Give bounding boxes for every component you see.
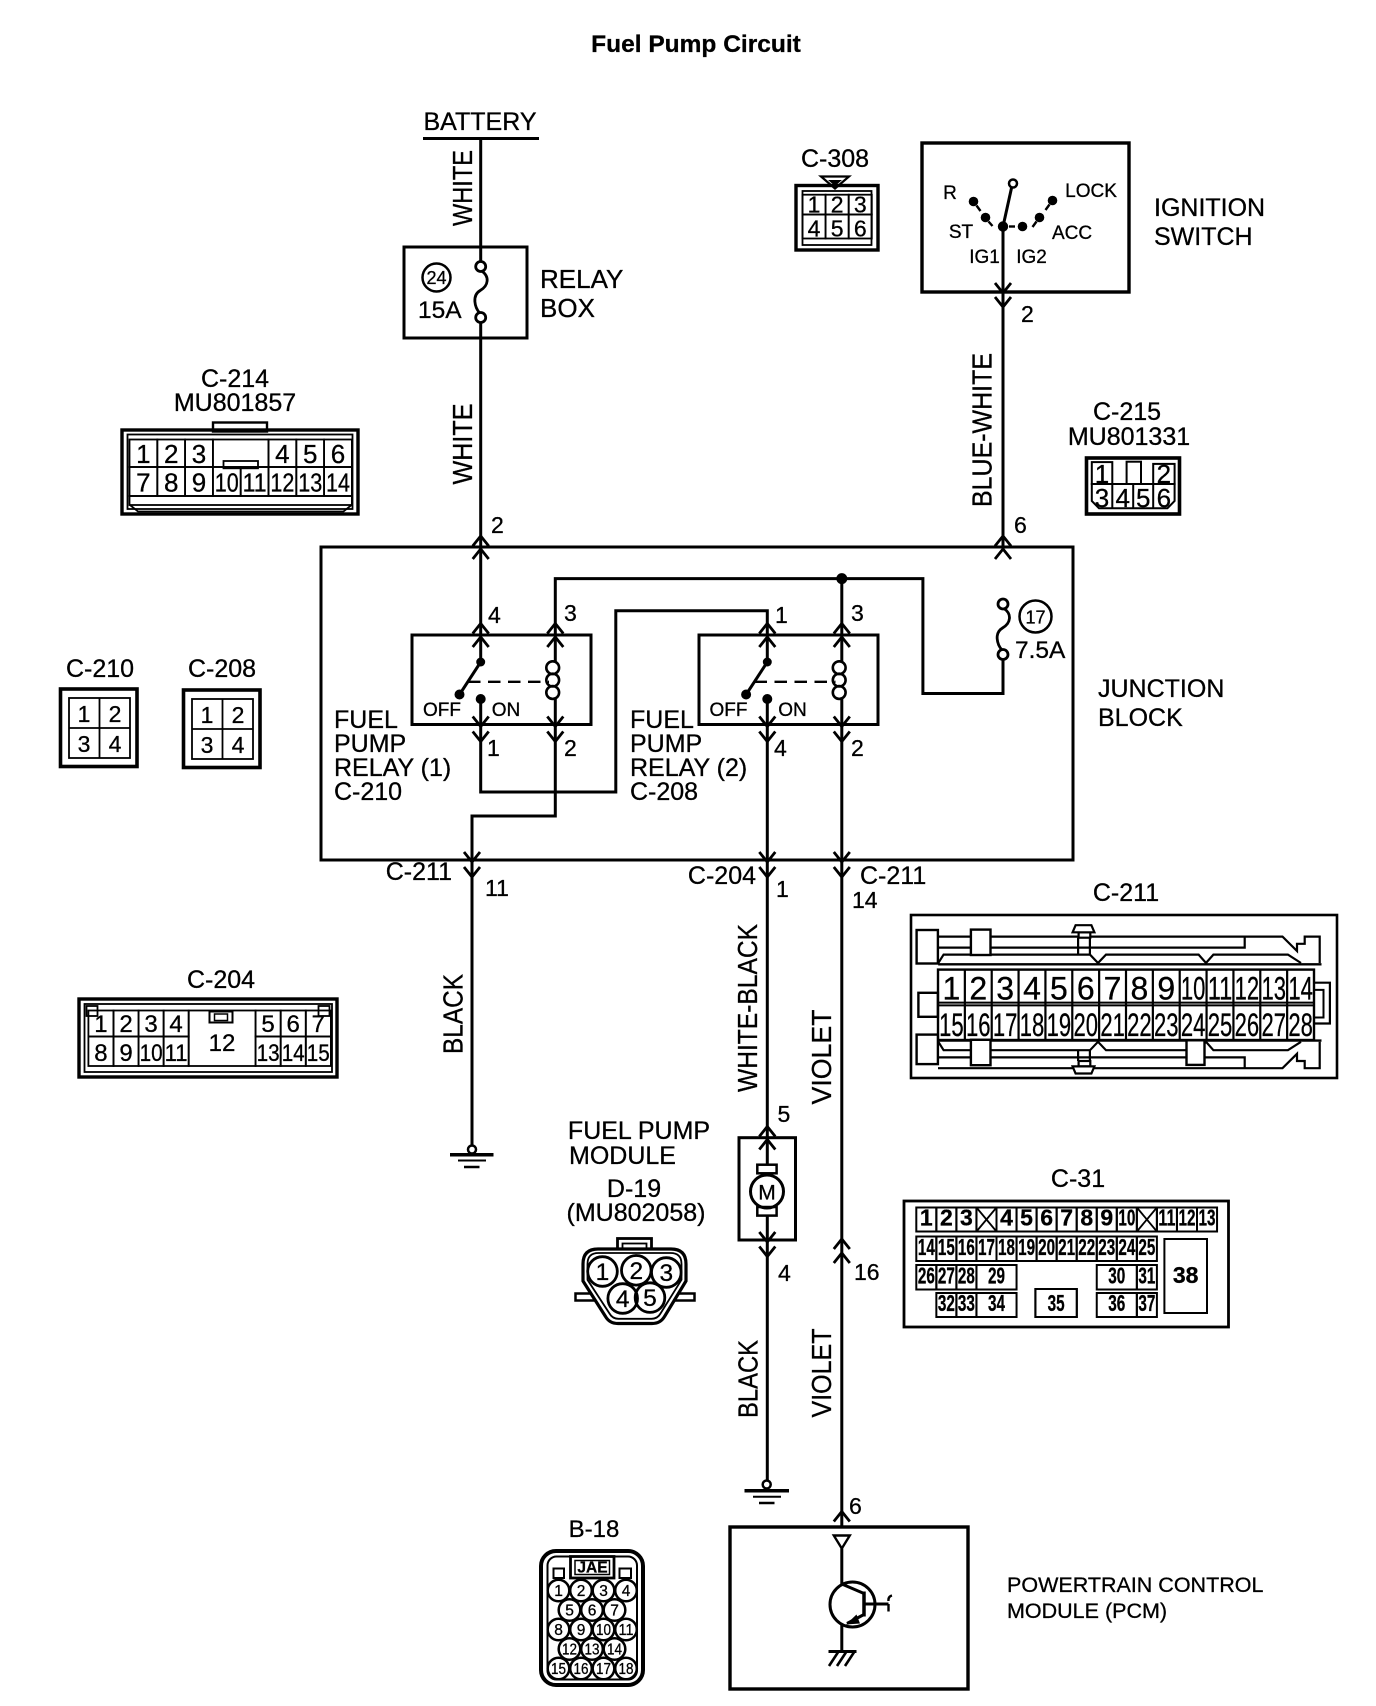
fuel pump relay 2 box C-208 (699, 635, 878, 725)
svg-text:16: 16 (854, 1259, 880, 1285)
svg-text:2: 2 (564, 735, 577, 761)
connector C-211 bottom latch (938, 1042, 1320, 1068)
svg-text:4: 4 (774, 735, 787, 761)
svg-text:34: 34 (988, 1290, 1005, 1316)
svg-text:M: M (758, 1182, 776, 1205)
svg-text:C-308: C-308 (801, 145, 869, 173)
svg-text:VIOLET: VIOLET (806, 1329, 837, 1418)
svg-text:17: 17 (1025, 608, 1045, 628)
svg-text:17: 17 (993, 1007, 1018, 1043)
svg-text:23: 23 (1154, 1007, 1179, 1043)
svg-text:C-215: C-215 (1093, 398, 1161, 426)
svg-text:C-210: C-210 (334, 778, 402, 806)
svg-text:3: 3 (599, 1583, 608, 1600)
connector B-18 body (541, 1551, 643, 1685)
junction block exit C-211 pin 14 (834, 852, 850, 862)
svg-text:C-31: C-31 (1051, 1165, 1105, 1193)
svg-text:6: 6 (1077, 971, 1095, 1007)
wire battery feed to fuel pump relay 1 pin 4 (479, 547, 482, 635)
svg-text:2: 2 (969, 971, 987, 1007)
svg-text:FUEL PUMP: FUEL PUMP (568, 1117, 710, 1145)
relay 2 coil (840, 637, 843, 662)
svg-text:7: 7 (610, 1603, 619, 1620)
svg-text:3: 3 (1095, 483, 1109, 513)
svg-text:13: 13 (1199, 1205, 1216, 1231)
svg-text:C-204: C-204 (688, 862, 756, 890)
svg-text:Fuel Pump Circuit: Fuel Pump Circuit (591, 31, 801, 58)
svg-text:5: 5 (261, 1011, 274, 1038)
svg-text:1: 1 (808, 192, 821, 218)
wire battery to relay box (WHITE) (479, 139, 482, 248)
svg-text:12: 12 (1178, 1205, 1195, 1231)
svg-text:24: 24 (1181, 1007, 1206, 1043)
connector C-211 side tabs (918, 993, 938, 1017)
svg-text:R: R (943, 183, 957, 204)
connector C-204 key tab (210, 1012, 233, 1023)
connector C-31 pin row 1 (916, 1208, 936, 1232)
svg-text:C-211: C-211 (1093, 879, 1159, 907)
svg-text:29: 29 (988, 1263, 1005, 1289)
bus wire from fuse 17 to relay coils (555, 579, 1003, 694)
svg-text:11: 11 (1158, 1205, 1175, 1231)
connector C-211 bottom mushroom pin (1078, 1050, 1090, 1061)
svg-text:MU801857: MU801857 (174, 389, 296, 417)
svg-text:27: 27 (938, 1263, 955, 1289)
svg-text:5: 5 (643, 1285, 657, 1312)
connector C-211 body (911, 915, 1337, 1078)
svg-text:23: 23 (1098, 1234, 1115, 1260)
svg-text:37: 37 (1138, 1290, 1155, 1316)
svg-text:2: 2 (164, 439, 178, 469)
svg-text:MU801331: MU801331 (1068, 423, 1190, 451)
junction block (321, 547, 1073, 860)
relay 1 dashed actuation link (468, 681, 549, 683)
wire to transistor (840, 1549, 843, 1585)
svg-text:4: 4 (622, 1583, 631, 1600)
svg-text:8: 8 (164, 468, 178, 498)
transistor Q (PCM driver) (830, 1582, 875, 1627)
wire C-211 pin 14 to PCM (VIOLET) (840, 860, 843, 1527)
svg-text:19: 19 (1047, 1007, 1072, 1043)
VIOLET direction chevrons (834, 1239, 850, 1249)
connector C-215 body (1087, 458, 1180, 514)
svg-text:38: 38 (1173, 1262, 1199, 1288)
fuel pump motor box (739, 1138, 796, 1240)
svg-text:30: 30 (1108, 1263, 1125, 1289)
svg-text:22: 22 (1127, 1007, 1152, 1043)
svg-text:9: 9 (192, 468, 206, 498)
svg-text:18: 18 (1020, 1007, 1045, 1043)
svg-text:1: 1 (136, 439, 150, 469)
svg-text:14: 14 (1288, 971, 1313, 1007)
ground symbol (left) (468, 1146, 476, 1154)
svg-text:BLACK: BLACK (437, 974, 468, 1054)
svg-text:15: 15 (939, 1007, 964, 1043)
svg-text:26: 26 (918, 1263, 935, 1289)
svg-text:4: 4 (232, 732, 245, 758)
svg-text:10: 10 (140, 1040, 163, 1067)
svg-text:MODULE (PCM): MODULE (PCM) (1007, 1599, 1167, 1623)
svg-text:1: 1 (596, 1259, 610, 1286)
svg-text:8: 8 (94, 1040, 107, 1067)
svg-text:15: 15 (551, 1661, 566, 1678)
junction block exit C-211 pin 11 (464, 852, 480, 862)
svg-text:POWERTRAIN CONTROL: POWERTRAIN CONTROL (1007, 1573, 1263, 1597)
svg-text:4: 4 (1023, 971, 1041, 1007)
wire C-211 pin 11 to ground (BLACK) (471, 860, 474, 1146)
fuel pump motor M (766, 1139, 769, 1165)
svg-text:4: 4 (1000, 1205, 1013, 1231)
wire transistor to chassis ground (840, 1625, 843, 1652)
svg-text:6: 6 (331, 439, 345, 469)
svg-text:2: 2 (232, 702, 245, 728)
svg-text:2: 2 (831, 192, 844, 218)
relay 2 pin 4 (switch out) to C-204 exit (766, 699, 769, 860)
wire relay 1 pin 2 to C-211 pin 11 exit (472, 725, 555, 861)
relay 2 switch (766, 637, 769, 662)
connector C-208 body (184, 690, 261, 768)
svg-text:OFF: OFF (423, 700, 461, 721)
svg-text:1: 1 (554, 1583, 563, 1600)
svg-text:6: 6 (1157, 483, 1171, 513)
connector B-18 pin circles (548, 1580, 570, 1602)
svg-text:JAE: JAE (577, 1560, 607, 1577)
relay 1 coil (554, 637, 557, 662)
wire fuel pump to ground (BLACK) (766, 1240, 769, 1481)
svg-text:LOCK: LOCK (1065, 181, 1117, 202)
svg-text:3: 3 (192, 439, 206, 469)
svg-text:18: 18 (619, 1661, 634, 1678)
svg-text:C-211: C-211 (386, 858, 452, 886)
svg-text:17: 17 (978, 1234, 995, 1260)
wire relay 1 pin 1 to relay 2 pin 1 (481, 611, 768, 792)
svg-text:1: 1 (920, 1205, 933, 1231)
svg-text:31: 31 (1138, 1263, 1155, 1289)
svg-text:2: 2 (1021, 301, 1034, 327)
svg-text:3: 3 (854, 192, 867, 218)
svg-text:1: 1 (487, 735, 500, 761)
svg-text:ON: ON (492, 700, 521, 721)
connector C-204 pin cells (88, 1011, 113, 1037)
svg-text:WHITE: WHITE (447, 150, 478, 226)
svg-text:14: 14 (918, 1234, 935, 1260)
powertrain control module box (730, 1527, 968, 1689)
svg-text:5: 5 (831, 216, 844, 242)
connector C-31 body (904, 1201, 1229, 1327)
svg-text:16: 16 (574, 1661, 589, 1678)
svg-text:12: 12 (1235, 971, 1260, 1007)
svg-text:18: 18 (998, 1234, 1015, 1260)
fuel pump module pin 4 exit (759, 1232, 775, 1242)
svg-text:6: 6 (849, 1493, 862, 1519)
svg-text:6: 6 (1040, 1205, 1053, 1231)
svg-text:MODULE: MODULE (569, 1142, 676, 1170)
svg-text:2: 2 (109, 701, 122, 727)
relay 2 pin 2 (coil out) to C-211 pin 14 exit (840, 725, 843, 861)
svg-text:C-204: C-204 (187, 966, 255, 994)
svg-text:2: 2 (851, 735, 864, 761)
svg-text:36: 36 (1108, 1290, 1125, 1316)
svg-text:7: 7 (312, 1011, 325, 1038)
svg-text:8: 8 (1131, 971, 1149, 1007)
svg-text:21: 21 (1100, 1007, 1125, 1043)
connector D-19 drawing (618, 1239, 652, 1252)
svg-text:6: 6 (287, 1011, 300, 1038)
svg-text:ON: ON (778, 700, 807, 721)
svg-text:OFF: OFF (710, 700, 748, 721)
chassis ground (PCM) (829, 1650, 857, 1653)
relay 2 dashed actuation link (755, 681, 836, 683)
svg-text:20: 20 (1073, 1007, 1098, 1043)
svg-text:3: 3 (78, 731, 91, 757)
fuse 17 circle label (1020, 601, 1052, 633)
svg-text:7: 7 (136, 468, 150, 498)
svg-text:4: 4 (109, 731, 122, 757)
svg-text:9: 9 (1100, 1205, 1113, 1231)
svg-text:26: 26 (1235, 1007, 1260, 1043)
svg-text:6: 6 (1014, 512, 1027, 538)
svg-text:2: 2 (577, 1583, 586, 1600)
svg-text:JUNCTION: JUNCTION (1098, 675, 1224, 703)
svg-text:10: 10 (596, 1622, 611, 1639)
connector C-211 pin grid (938, 970, 1314, 1040)
fuse 24 circle label (423, 264, 451, 292)
connector D-19 pin circles (588, 1257, 618, 1287)
svg-text:12: 12 (270, 468, 294, 498)
svg-text:5: 5 (1050, 971, 1068, 1007)
svg-text:35: 35 (1048, 1290, 1065, 1316)
svg-text:4: 4 (488, 602, 501, 628)
svg-text:3: 3 (564, 600, 577, 626)
svg-text:3: 3 (659, 1260, 673, 1287)
svg-text:15A: 15A (418, 297, 462, 324)
svg-text:C-208: C-208 (188, 655, 256, 683)
svg-text:8: 8 (554, 1622, 563, 1639)
svg-text:2: 2 (491, 512, 504, 538)
svg-text:14: 14 (326, 468, 350, 498)
svg-text:8: 8 (1080, 1205, 1093, 1231)
connector C-31 pin row 2 (916, 1237, 936, 1262)
svg-text:WHITE: WHITE (447, 404, 478, 485)
svg-text:3: 3 (996, 971, 1014, 1007)
svg-text:14: 14 (282, 1040, 305, 1067)
svg-text:20: 20 (1038, 1234, 1055, 1260)
PCM input triangle (834, 1536, 850, 1549)
relay 1 switch (479, 637, 482, 662)
svg-text:4: 4 (778, 1260, 791, 1286)
connector C-210 body (61, 689, 138, 767)
connector C-214 bottom strip (130, 496, 352, 505)
ground symbol (fuel pump) (763, 1481, 771, 1489)
connector C-31 pin row 3 (916, 1265, 936, 1290)
svg-text:7: 7 (1060, 1205, 1073, 1231)
junction block exit C-204 pin 1 (759, 852, 775, 862)
fuel pump relay 1 box C-210 (412, 635, 591, 725)
svg-text:RELAY: RELAY (540, 264, 623, 294)
svg-text:1: 1 (776, 876, 789, 902)
svg-text:WHITE-BLACK: WHITE-BLACK (732, 924, 763, 1092)
svg-text:10: 10 (1181, 971, 1206, 1007)
svg-text:21: 21 (1058, 1234, 1075, 1260)
svg-text:7.5A: 7.5A (1015, 637, 1066, 664)
svg-text:ACC: ACC (1052, 223, 1092, 244)
svg-text:17: 17 (596, 1661, 611, 1678)
svg-text:5: 5 (303, 439, 317, 469)
svg-text:ST: ST (949, 222, 974, 243)
svg-text:C-210: C-210 (66, 655, 134, 683)
wire bus to relay 2 pin 3 (840, 579, 843, 635)
svg-text:15: 15 (307, 1040, 330, 1067)
svg-text:11: 11 (165, 1040, 188, 1067)
svg-text:33: 33 (958, 1290, 975, 1316)
svg-text:4: 4 (616, 1286, 630, 1313)
svg-text:27: 27 (1261, 1007, 1286, 1043)
svg-text:5: 5 (1020, 1205, 1033, 1231)
fuse 17 element (998, 599, 1008, 609)
svg-text:14: 14 (852, 887, 878, 913)
svg-text:3: 3 (851, 600, 864, 626)
svg-text:3: 3 (144, 1011, 157, 1038)
relay box (404, 247, 527, 338)
svg-text:13: 13 (1261, 971, 1286, 1007)
relay 1 pin 1 (switch out) (479, 699, 482, 725)
connector C-211 top latch (938, 937, 1320, 963)
connector C-308 body (796, 186, 878, 251)
svg-text:IG2: IG2 (1016, 247, 1047, 268)
svg-text:5: 5 (565, 1603, 574, 1620)
svg-text:12: 12 (209, 1030, 236, 1057)
svg-text:6: 6 (588, 1603, 597, 1620)
svg-text:BLACK: BLACK (732, 1340, 763, 1418)
svg-text:5: 5 (778, 1101, 791, 1127)
svg-text:C-211: C-211 (860, 862, 926, 890)
svg-text:10: 10 (1118, 1205, 1135, 1231)
svg-text:2: 2 (119, 1011, 132, 1038)
svg-text:13: 13 (298, 468, 322, 498)
svg-text:24: 24 (426, 268, 446, 288)
svg-text:4: 4 (808, 216, 821, 242)
svg-text:28: 28 (1288, 1007, 1313, 1043)
svg-text:1: 1 (201, 702, 214, 728)
svg-text:32: 32 (938, 1290, 955, 1316)
svg-text:24: 24 (1118, 1234, 1135, 1260)
svg-text:2: 2 (940, 1205, 953, 1231)
svg-text:16: 16 (966, 1007, 991, 1043)
svg-text:9: 9 (577, 1622, 586, 1639)
ignition switch lever (1003, 188, 1012, 227)
svg-text:25: 25 (1138, 1234, 1155, 1260)
svg-text:7: 7 (1104, 971, 1122, 1007)
svg-text:3: 3 (960, 1205, 973, 1231)
svg-text:4: 4 (1115, 483, 1129, 513)
relay 1 pin 2 (coil out) (547, 717, 563, 727)
svg-text:IG1: IG1 (969, 247, 1000, 268)
svg-text:BATTERY: BATTERY (424, 108, 537, 136)
svg-text:14: 14 (607, 1642, 622, 1659)
svg-text:9: 9 (119, 1040, 132, 1067)
svg-text:C-208: C-208 (630, 778, 698, 806)
svg-text:11: 11 (1208, 971, 1233, 1007)
svg-text:BLUE-WHITE: BLUE-WHITE (966, 353, 997, 507)
svg-text:2: 2 (629, 1258, 643, 1285)
svg-text:11: 11 (243, 468, 267, 498)
svg-text:9: 9 (1157, 971, 1175, 1007)
connector C-211 top mushroom pin (1078, 938, 1090, 955)
svg-text:VIOLET: VIOLET (806, 1010, 837, 1105)
connector C-31 pin 38 (1164, 1239, 1207, 1313)
svg-text:11: 11 (619, 1622, 634, 1639)
svg-text:1: 1 (78, 701, 91, 727)
svg-text:4: 4 (275, 439, 289, 469)
junction node on bus (relay 2 coil tap) (836, 573, 847, 584)
svg-text:BOX: BOX (540, 293, 595, 323)
ignition switch box (922, 143, 1129, 292)
svg-text:IGNITION: IGNITION (1154, 194, 1265, 222)
svg-text:6: 6 (854, 216, 867, 242)
svg-text:1: 1 (775, 602, 788, 628)
svg-text:B-18: B-18 (569, 1516, 620, 1543)
connector B-18 JAE tag (571, 1557, 615, 1579)
svg-text:25: 25 (1208, 1007, 1233, 1043)
fuse 24 element (479, 247, 482, 262)
svg-text:28: 28 (958, 1263, 975, 1289)
svg-text:12: 12 (562, 1642, 577, 1659)
connector C-308 arrow (821, 177, 849, 189)
svg-text:3: 3 (201, 732, 214, 758)
connector C-31 pin row 4 (936, 1293, 956, 1317)
svg-text:22: 22 (1078, 1234, 1095, 1260)
connector C-214 body (213, 423, 267, 432)
wire C-204 pin 1 to fuel pump module (WHITE-BLACK) (766, 860, 769, 1138)
svg-text:4: 4 (169, 1011, 182, 1038)
svg-text:15: 15 (938, 1234, 955, 1260)
svg-text:1: 1 (94, 1011, 107, 1038)
svg-text:1: 1 (943, 971, 961, 1007)
svg-text:16: 16 (958, 1234, 975, 1260)
svg-text:13: 13 (257, 1040, 280, 1067)
svg-text:BLOCK: BLOCK (1098, 704, 1183, 732)
svg-text:(MU802058): (MU802058) (567, 1199, 706, 1227)
svg-text:10: 10 (215, 468, 239, 498)
svg-text:SWITCH: SWITCH (1154, 223, 1253, 251)
svg-text:13: 13 (585, 1642, 600, 1659)
ignition switch output pin 2 (1002, 231, 1005, 547)
svg-text:19: 19 (1018, 1234, 1035, 1260)
connector C-204 body (79, 999, 337, 1077)
svg-text:11: 11 (485, 875, 509, 901)
svg-text:5: 5 (1136, 483, 1150, 513)
wire relay box to junction block (WHITE) (479, 322, 482, 547)
